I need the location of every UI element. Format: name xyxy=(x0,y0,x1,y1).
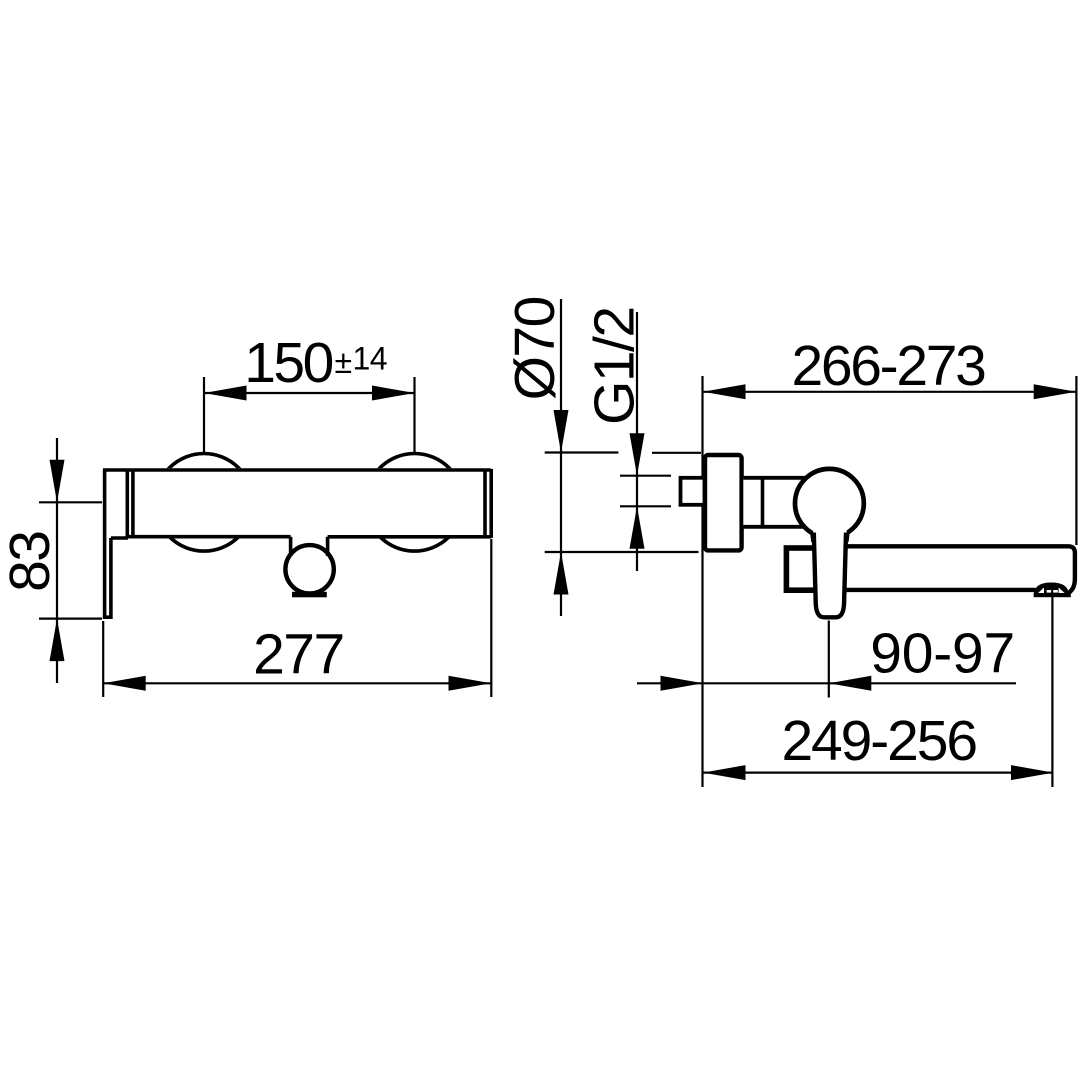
svg-text:Ø70: Ø70 xyxy=(503,297,567,400)
svg-text:±: ± xyxy=(335,344,353,380)
svg-text:277: 277 xyxy=(253,622,344,686)
svg-text:14: 14 xyxy=(353,341,388,377)
svg-text:G1/2: G1/2 xyxy=(583,307,647,425)
svg-text:83: 83 xyxy=(0,531,62,591)
svg-text:90-97: 90-97 xyxy=(870,621,1015,685)
svg-text:266-273: 266-273 xyxy=(791,334,985,398)
svg-text:150: 150 xyxy=(244,331,332,395)
svg-text:249-256: 249-256 xyxy=(781,709,976,773)
